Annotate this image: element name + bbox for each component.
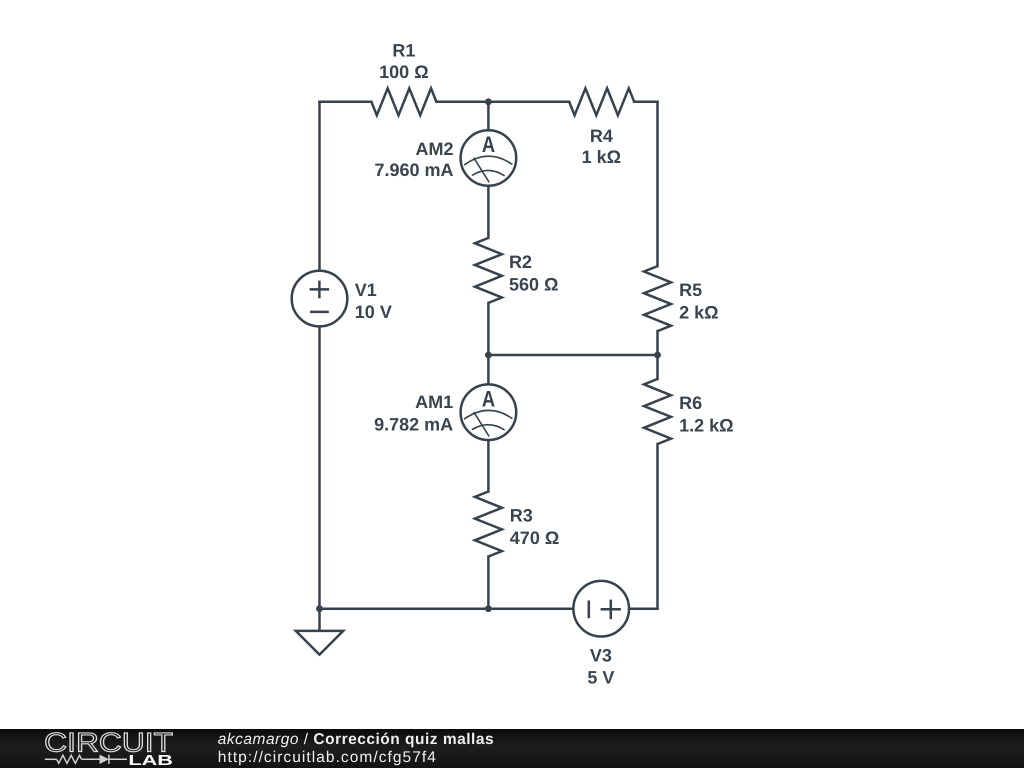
svg-text:R5: R5 <box>679 280 702 300</box>
svg-text:V1: V1 <box>355 280 377 300</box>
svg-text:R2: R2 <box>509 252 532 272</box>
svg-text:R3: R3 <box>510 506 533 526</box>
svg-text:akcamargo / Corrección quiz ma: akcamargo / Corrección quiz mallas <box>218 731 494 748</box>
svg-text:V3: V3 <box>590 645 612 665</box>
svg-text:2 kΩ: 2 kΩ <box>679 303 718 323</box>
svg-text:5 V: 5 V <box>587 668 614 688</box>
svg-text:R4: R4 <box>590 126 613 146</box>
svg-text:R1: R1 <box>392 40 415 60</box>
svg-text:A: A <box>482 132 495 157</box>
svg-text:10 V: 10 V <box>355 302 392 322</box>
svg-text:1.2 kΩ: 1.2 kΩ <box>679 415 733 435</box>
svg-text:100 Ω: 100 Ω <box>379 62 428 82</box>
svg-text:9.782 mA: 9.782 mA <box>374 414 453 434</box>
svg-text:470 Ω: 470 Ω <box>510 528 559 548</box>
svg-text:560 Ω: 560 Ω <box>509 274 558 294</box>
svg-text:1 kΩ: 1 kΩ <box>582 147 621 167</box>
svg-text:A: A <box>482 386 495 411</box>
svg-text:7.960 mA: 7.960 mA <box>374 160 453 180</box>
svg-text:http://circuitlab.com/cfg57f4: http://circuitlab.com/cfg57f4 <box>218 749 437 766</box>
svg-text:AM1: AM1 <box>415 392 453 412</box>
svg-text:R6: R6 <box>679 393 702 413</box>
svg-text:AM2: AM2 <box>415 139 453 159</box>
svg-text:LAB: LAB <box>128 753 173 768</box>
